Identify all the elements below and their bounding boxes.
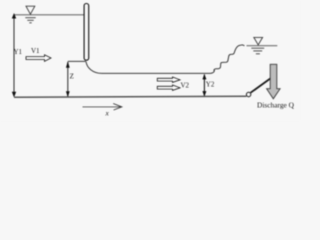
- channel floor line: [14, 96, 246, 97]
- dimension Z: [66, 61, 70, 97]
- x axis arrow: [83, 104, 122, 111]
- hydraulic jump wavy profile: [211, 45, 245, 74]
- water surface symbol upstream: [25, 6, 35, 23]
- water surface symbol downstream: [251, 37, 264, 53]
- discharge arrow: [267, 64, 281, 99]
- flap gate arm: [251, 78, 271, 93]
- upstream water surface line: [14, 14, 84, 16]
- svg-text:Z: Z: [70, 73, 74, 81]
- dimension Y1: [12, 13, 16, 97]
- dimension Y2: [202, 74, 206, 97]
- jet surface line: [102, 72, 211, 74]
- pivot circle: [246, 92, 250, 96]
- sluice gate: [84, 4, 89, 61]
- svg-text:V1: V1: [31, 47, 40, 55]
- downstream water surface line: [247, 45, 278, 47]
- svg-text:V2: V2: [181, 82, 190, 90]
- svg-text:Y2: Y2: [206, 81, 215, 89]
- velocity arrows V2: [157, 77, 180, 82]
- svg-text:x: x: [105, 109, 110, 118]
- jet contraction curve: [86, 62, 102, 74]
- svg-text:Discharge Q: Discharge Q: [257, 101, 295, 110]
- svg-text:Y1: Y1: [14, 48, 23, 56]
- gate lip tick line: [68, 60, 86, 62]
